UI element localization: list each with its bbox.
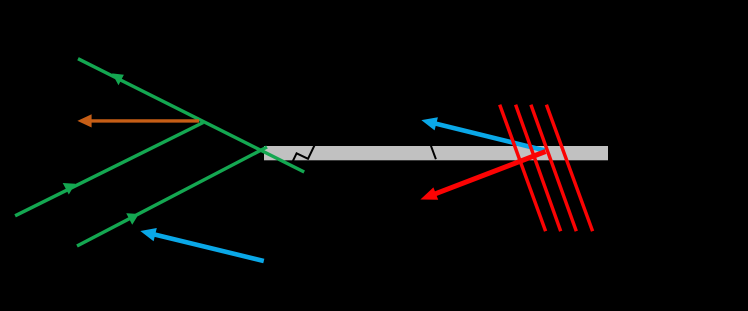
red wavefront 2: [516, 105, 561, 232]
wavefront tick mark in bar (parallel to red wavefronts): [431, 146, 436, 160]
green incident ray B: [15, 123, 203, 216]
red wavefront 1: [500, 105, 546, 232]
arrowhead on wavefront A: [112, 73, 124, 85]
green wavefront line A (outgoing): [78, 59, 304, 172]
green incident ray C: [77, 147, 267, 246]
arrowhead on ray C: [126, 213, 139, 225]
grating surface bar: [264, 146, 608, 160]
orange arrow (propagation direction): [90, 119, 199, 122]
red wavefront 4: [546, 105, 592, 232]
right-angle marker between wavefront and normal: [293, 145, 315, 161]
blue annotation arrow (right, points up-left from grating point): [434, 123, 545, 150]
blue annotation arrow (lower left, points to incident ray): [153, 234, 264, 261]
arrowhead on ray B: [63, 183, 76, 195]
red wavefront 3: [531, 105, 576, 232]
red diffracted beam arrow: [434, 152, 545, 195]
